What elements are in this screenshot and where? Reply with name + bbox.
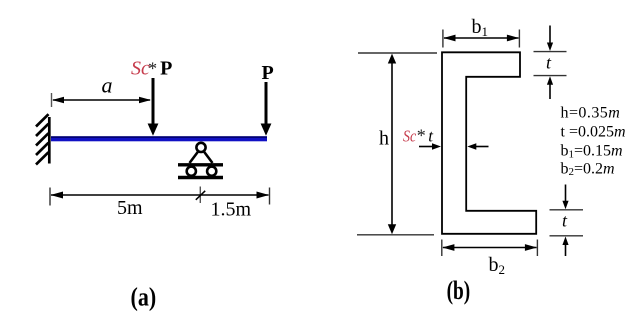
svg-text:b2=0.2m: b2=0.2m (561, 161, 615, 179)
svg-text:5m: 5m (117, 197, 143, 219)
web thickness arrows (419, 143, 489, 149)
beam (51, 136, 267, 141)
svg-text:(a): (a) (131, 284, 157, 312)
dim a (52, 93, 152, 107)
dim 5m 1.5m (50, 187, 270, 206)
dim b1 (443, 30, 520, 48)
roller support (178, 143, 223, 178)
svg-text:b1: b1 (472, 16, 489, 39)
svg-text:a: a (102, 73, 113, 98)
dim h (357, 53, 437, 235)
svg-text:t =0.025m: t =0.025m (561, 124, 626, 141)
svg-text:(b): (b) (447, 276, 471, 306)
svg-text:b1=0.15m: b1=0.15m (561, 142, 623, 160)
svg-text:t: t (562, 211, 568, 231)
channel section outline (442, 52, 536, 234)
dim b2 (442, 240, 538, 257)
fixed support wall (36, 114, 49, 164)
svg-text:h=0.35m: h=0.35m (561, 105, 621, 122)
dim t top (534, 26, 567, 100)
svg-text:1.5m: 1.5m (211, 199, 252, 221)
svg-text:P: P (262, 62, 274, 84)
svg-text:Sc*t: Sc*t (403, 126, 434, 146)
load arrow Sc*P (148, 78, 159, 136)
svg-text:t: t (546, 53, 552, 73)
load arrow P (261, 82, 272, 136)
svg-text:h: h (379, 128, 389, 150)
svg-text:b2: b2 (489, 254, 506, 277)
svg-text:Sc*P: Sc*P (131, 57, 172, 79)
dim t bottom (550, 185, 584, 257)
